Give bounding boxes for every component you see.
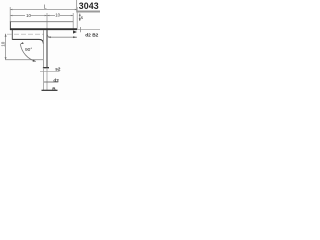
web top right line with fillet: [47, 34, 77, 38]
extension below web right: [46, 68, 48, 91]
hidden dashed edge y=34: [7, 33, 44, 35]
svg-text:3043: 3043: [79, 1, 99, 11]
90 degree arc: [20, 44, 36, 62]
leader line right of flange: [77, 29, 100, 31]
svg-text:10: 10: [55, 12, 60, 17]
line under s2: [40, 70, 60, 72]
dimension line 10 right: [47, 15, 73, 17]
arc arrow bottom: [33, 60, 36, 62]
tick x=80.5: [80, 27, 82, 32]
svg-text:10: 10: [26, 13, 31, 18]
web left edge: [42, 30, 44, 68]
extension line x=77: [76, 7, 78, 30]
extension below web left: [42, 68, 44, 91]
dimension line d2 bottom: [44, 81, 58, 83]
flange left lower end: [11, 30, 13, 40]
left vertical dimension line: [5, 34, 7, 60]
extension line left x=10: [9, 7, 11, 22]
arc arrow top: [20, 42, 23, 44]
part number 3043: [76, 0, 100, 13]
svg-text:90°: 90°: [25, 47, 32, 53]
flange bottom edge: [10, 28, 77, 30]
dimension line B bottom: [42, 89, 58, 91]
extension line web centerline x=47: [46, 13, 48, 30]
arrow dash left of labels: [73, 30, 77, 33]
svg-text:L: L: [44, 5, 47, 11]
dimension line L: [10, 9, 77, 11]
dimension line 10 left: [10, 15, 47, 17]
thickness dimension small vertical: [79, 14, 81, 22]
extension line x=73: [72, 13, 74, 29]
flange top edge: [10, 21, 73, 23]
horizontal leg line to web: [5, 59, 43, 61]
svg-text:s: s: [81, 15, 84, 20]
svg-text:s2: s2: [55, 66, 61, 71]
svg-text:d2: d2: [85, 32, 91, 38]
web bottom edge: [43, 67, 49, 69]
arrow on right web line: [73, 36, 77, 38]
svg-text:10: 10: [1, 41, 6, 47]
flange left end: [9, 22, 11, 31]
web right edge: [46, 30, 48, 68]
web top left line with fillet: [12, 39, 43, 43]
svg-text:d2: d2: [53, 78, 59, 83]
svg-text:B2: B2: [92, 32, 98, 38]
